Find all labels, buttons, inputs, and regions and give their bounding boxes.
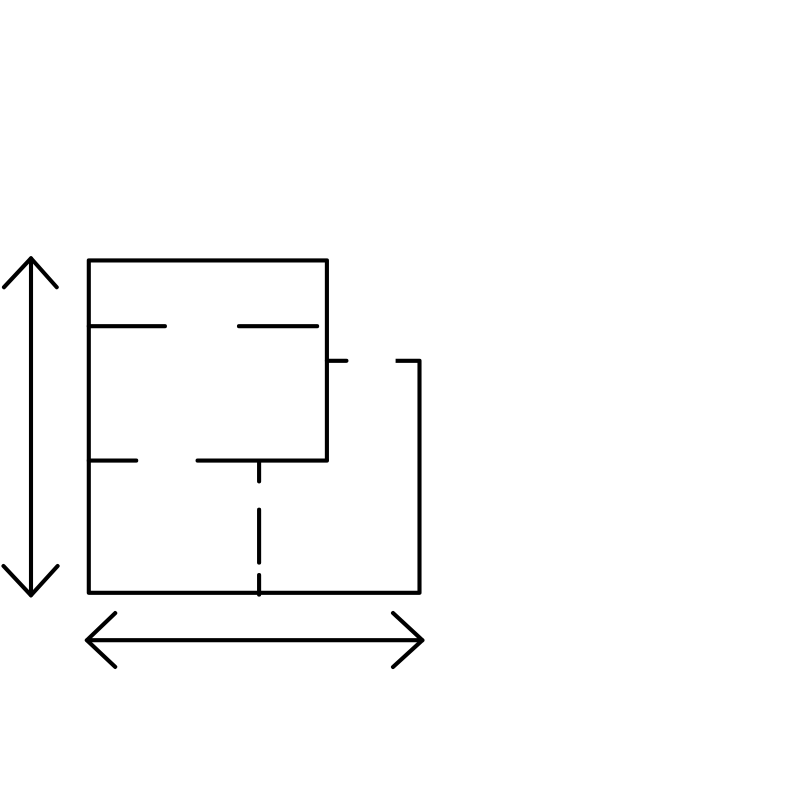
interior wall lower, right segment [198, 459, 327, 463]
wall stub right of upper room at door opening [327, 359, 347, 363]
horizontal arrow left head upper barb [87, 613, 115, 640]
interior wall lower, left segment [89, 459, 136, 463]
dashed partition dash 2 [257, 510, 261, 563]
horizontal arrow right head upper barb [393, 613, 422, 640]
horizontal arrow left head lower barb [87, 640, 115, 667]
vertical arrow bottom head right barb [31, 566, 58, 595]
dashed partition dash 1 [257, 461, 261, 482]
vertical dimension arrow shaft [29, 258, 33, 595]
interior wall upper, left segment [89, 324, 165, 328]
vertical arrow top head left barb [4, 258, 31, 287]
dashed partition dash 3 [257, 575, 261, 595]
vertical arrow bottom head left barb [4, 566, 32, 595]
floor plan outer walls (right wall of upper room, top wall, left wall, bottom wall, right outer wall, upper-right extension wall) [89, 260, 420, 592]
interior wall upper, right segment [239, 324, 317, 328]
vertical arrow top head right barb [31, 258, 57, 287]
horizontal arrow right head lower barb [393, 640, 422, 667]
horizontal dimension arrow shaft [87, 638, 423, 642]
